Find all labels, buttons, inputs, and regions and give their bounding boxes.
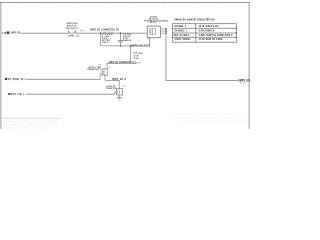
- svg-text:SMPS_EN: SMPS_EN: [11, 32, 21, 35]
- svg-text:1%: 1%: [133, 58, 139, 60]
- svg-text:SC70: SC70: [150, 22, 158, 24]
- svg-text:47.5K OHM 1% 1/16W: 47.5K OHM 1% 1/16W: [199, 38, 224, 41]
- svg-text:4.75K OHM 1%: 4.75K OHM 1%: [199, 30, 215, 33]
- svg-text:SHEET 17 OF 42 PAGES: SHEET 17 OF 42 PAGES: [2, 126, 49, 129]
- svg-text:DO NOT COPY WITHOUT PERMISSION: DO NOT COPY WITHOUT PERMISSION: [175, 117, 243, 120]
- svg-text:10.0K OHM 1% 1W: 10.0K OHM 1% 1W: [199, 26, 220, 28]
- svg-text:SMPS_EN_CT_R: SMPS_EN_CT_R: [131, 44, 151, 47]
- svg-text:CHANNEL_0: CHANNEL_0: [174, 25, 186, 28]
- svg-text:EMUX ID LOOKUP TABLE REV 0A: EMUX ID LOOKUP TABLE REV 0A: [174, 18, 215, 22]
- svg-text:1.82K OHM 5% 1/16W 0402 X: 1.82K OHM 5% 1/16W 0402 X: [199, 34, 234, 37]
- svg-text:SW1700 F1: SW1700 F1: [66, 28, 80, 30]
- svg-text:SMPS_EN: SMPS_EN: [238, 78, 250, 82]
- svg-text:4,5,7,9: 4,5,7,9: [240, 82, 246, 85]
- svg-text:CHANNEL_1: CHANNEL_1: [174, 30, 187, 33]
- svg-text:SMPS_EN_CONNECTOR_R_X: SMPS_EN_CONNECTOR_R_X: [109, 62, 137, 64]
- svg-text:SMPS_EN_CONNECTOR_EN: SMPS_EN_CONNECTOR_EN: [90, 28, 119, 31]
- svg-text:CONNECTOR: CONNECTOR: [106, 88, 116, 90]
- svg-text:STRAP_SENSE1: STRAP_SENSE1: [174, 38, 191, 41]
- svg-text:BATT_CHG_L: BATT_CHG_L: [11, 93, 25, 96]
- svg-text:CONNECTOR_X: CONNECTOR_X: [87, 69, 101, 71]
- svg-text:RES_ID_SEL0: RES_ID_SEL0: [174, 35, 190, 37]
- svg-text:250MA: 250MA: [68, 34, 75, 37]
- svg-text:PI:SN74LVC1G97DCKR-Q: PI:SN74LVC1G97DCKR-Q: [144, 19, 168, 22]
- svg-text:ALL RIGHTS RESERVED WORLDWIDE: ALL RIGHTS RESERVED WORLDWIDE: [180, 121, 247, 124]
- svg-text:RTC_RESET_EN_L: RTC_RESET_EN_L: [8, 78, 26, 81]
